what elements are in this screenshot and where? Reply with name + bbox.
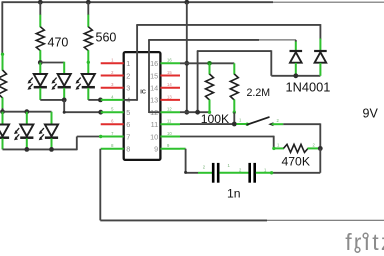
- LED D3 top row: [76, 74, 95, 90]
- wire 560 to LED3 lead: [87, 50, 90, 74]
- node junction LED1 anode: [38, 60, 43, 65]
- svg-text:10: 10: [150, 132, 158, 141]
- svg-text:11: 11: [151, 120, 159, 129]
- node junction 470 top: [38, 0, 43, 5]
- pin 6 stub: [101, 123, 124, 125]
- svg-text:5: 5: [126, 108, 130, 117]
- wire pin11 to switch: [180, 123, 237, 125]
- wire bottom LED cathode rail: [3, 148, 77, 150]
- svg-text:2.2M: 2.2M: [247, 87, 271, 99]
- node junction 560 top: [86, 0, 91, 5]
- svg-text:13: 13: [167, 94, 172, 99]
- node pin4 terminal: [98, 98, 103, 103]
- wire 560 top lead: [87, 2, 89, 27]
- svg-text:8: 8: [126, 145, 130, 154]
- resistor R2 560: [84, 27, 92, 51]
- LED D5 bottom row: [14, 125, 33, 141]
- svg-text:IC: IC: [140, 90, 147, 96]
- svg-text:6: 6: [126, 120, 130, 129]
- svg-text:1N4001: 1N4001: [286, 80, 331, 95]
- node 100K top junction: [207, 61, 212, 66]
- pin 11 stub: [160, 123, 180, 125]
- wire D8 top lead: [319, 39, 321, 52]
- svg-text:13: 13: [150, 96, 158, 105]
- svg-text:470: 470: [48, 36, 69, 50]
- resistor R4 left (value hidden): [0, 70, 7, 98]
- resistor R3 100K: [206, 74, 214, 100]
- svg-text:14: 14: [150, 84, 158, 93]
- wire right drop to cap rail: [272, 148, 321, 172]
- wire left V+ drop to R4: [1, 1, 3, 54]
- LED D2 top row: [51, 74, 70, 90]
- pin 5 stub: [101, 111, 124, 113]
- switch S1 right contact: [268, 122, 283, 126]
- pin 1 stub: [101, 62, 124, 64]
- node junction 2.2M bottom: [232, 122, 237, 127]
- switch S1 lever: [247, 117, 269, 124]
- wire pin9 down jog: [184, 149, 198, 174]
- wire cathode rail up to pin7: [77, 135, 103, 150]
- resistor R5 2.2M: [230, 74, 238, 100]
- svg-text:3: 3: [126, 84, 130, 93]
- wire LED1 anode lead: [39, 63, 41, 75]
- wire pin8 to bottom rail: [100, 149, 384, 221]
- node junction 470K right: [318, 146, 323, 151]
- wire 2.2M top lead: [233, 63, 235, 74]
- node junction LED5 cathode: [24, 147, 29, 152]
- wire 2.2M bottom lead: [233, 100, 236, 114]
- node junction LED6 cathode: [49, 147, 54, 152]
- capacitor C1 1n: [213, 163, 218, 183]
- wire switch left lead: [237, 123, 249, 126]
- node diode net junction: [195, 110, 200, 115]
- LED D1 top row: [28, 74, 47, 90]
- pin 7 stub: [101, 136, 124, 138]
- wire diode net left drop: [197, 51, 199, 112]
- svg-text:7: 7: [126, 132, 130, 141]
- wire 2.2M bottom to switch rail: [233, 112, 235, 124]
- node junction IC supply drop: [184, 0, 189, 5]
- wire LED1-LED2 cathode rail: [40, 99, 64, 101]
- wire pin10 to 470K left: [180, 136, 274, 149]
- resistor R1 470: [36, 27, 44, 51]
- LED D6 bottom row: [39, 125, 58, 141]
- wire 470K right lead: [308, 147, 321, 149]
- svg-text:16: 16: [167, 58, 172, 63]
- svg-text:10: 10: [167, 131, 172, 136]
- LED D4 bottom row: [0, 125, 9, 141]
- wire LED4 cathode lead: [2, 138, 4, 149]
- wire R4 bottom lead: [2, 98, 4, 112]
- wire LED2 cathode lead: [63, 88, 65, 100]
- svg-text:9V: 9V: [363, 107, 379, 121]
- label C 1n: [227, 186, 241, 200]
- wire pin12 to 100K bottom: [180, 111, 210, 113]
- wire LED3 cathode to pin4: [88, 99, 100, 101]
- wire cap1-cap2 link: [219, 172, 248, 174]
- diode D8 1N4001: [314, 51, 327, 63]
- svg-text:1: 1: [126, 59, 130, 68]
- fritzing watermark: [345, 229, 384, 255]
- wire 470 bottom lead: [39, 50, 41, 62]
- pin 15 stub: [160, 75, 180, 77]
- wire switch to 470K right: [283, 123, 320, 148]
- wire pin4 to diode D8 route: [124, 24, 321, 101]
- pin 12 stub: [160, 111, 180, 113]
- wire pin12 to diode D7 route: [148, 40, 296, 113]
- pin 14 stub: [160, 87, 180, 89]
- wire D8 bottom lead: [319, 63, 321, 76]
- node junction LED5 anode: [24, 109, 29, 114]
- wire LED6 anode lead: [51, 112, 53, 125]
- wire LED4 anode lead: [2, 112, 4, 125]
- pin 9 stub: [160, 148, 180, 150]
- pin 2 stub: [101, 75, 124, 77]
- wire LED1 cathode lead: [39, 88, 41, 100]
- label 1N4001: [286, 80, 331, 95]
- svg-text:11: 11: [167, 119, 172, 124]
- wire 470 top lead: [39, 2, 41, 27]
- wire pin9 lead: [180, 148, 186, 150]
- IC U1 body: [124, 52, 161, 160]
- svg-text:560: 560: [96, 31, 117, 45]
- pin 4 stub: [101, 99, 124, 101]
- svg-text:12: 12: [167, 107, 172, 112]
- wire pin16 to resistor tops: [180, 62, 234, 64]
- wire diode anode rail: [271, 75, 320, 77]
- wire V+ top rail: [2, 1, 384, 3]
- wire D7 bottom lead: [295, 63, 297, 76]
- label R2 560: [96, 31, 117, 45]
- pin 16 stub: [160, 62, 180, 64]
- node junction bottom LED rail left: [0, 109, 5, 114]
- svg-text:9: 9: [154, 145, 158, 154]
- wire cap1 left lead: [198, 172, 212, 174]
- wire LED5 anode lead: [26, 112, 28, 125]
- svg-text:470K: 470K: [282, 155, 310, 169]
- wire R4 top terminal: [1, 53, 4, 71]
- wire 100K bottom lead: [208, 100, 211, 114]
- pin 10 stub: [160, 136, 180, 138]
- wire cap2 right lead: [256, 171, 273, 174]
- labels switch pins: [239, 118, 280, 123]
- wire diode net right drop: [270, 50, 272, 76]
- pin numbers inside IC: [126, 59, 158, 153]
- node pin16 junction: [184, 61, 189, 66]
- wire IC supply drop: [186, 2, 188, 112]
- pin numbers outside stubs: [111, 58, 172, 148]
- pin 13 stub: [160, 99, 180, 101]
- wire LED2 node down jog: [63, 100, 101, 114]
- svg-text:1n: 1n: [227, 186, 241, 200]
- wire D7 top lead: [295, 42, 297, 52]
- label R1 470: [48, 36, 69, 50]
- node pin12 junction: [184, 110, 189, 115]
- pin 8 stub: [101, 148, 124, 150]
- labels cap pins: [203, 163, 267, 172]
- svg-text:15: 15: [167, 70, 172, 75]
- wire diode net top: [197, 50, 271, 52]
- wire LED6 cathode lead: [51, 138, 53, 149]
- svg-text:16: 16: [150, 59, 158, 68]
- node pin5 terminal: [98, 110, 103, 115]
- resistor R6 470K: [284, 144, 309, 152]
- capacitor C2 1n: [250, 163, 255, 183]
- diode D7 1N4001: [290, 51, 303, 63]
- label battery 9V: [363, 107, 379, 121]
- svg-text:14: 14: [167, 82, 172, 87]
- node junction LED2 cathode: [62, 98, 67, 103]
- node junction D7 anode: [293, 73, 298, 78]
- svg-text:2: 2: [126, 71, 130, 80]
- wire LED2 anode lead: [63, 62, 65, 75]
- wire LED1-LED2 anode rail: [40, 62, 64, 64]
- wire LED5 cathode lead: [26, 138, 28, 149]
- label R5 2.2M: [247, 87, 271, 99]
- label R6 470K: [277, 143, 316, 169]
- wire 470K left lead: [272, 147, 284, 150]
- label R3 100K: [201, 112, 229, 126]
- pin 3 stub: [101, 87, 124, 89]
- wire LED3 cathode lead: [87, 88, 89, 100]
- label IC: [140, 90, 147, 96]
- wire 100K top lead: [209, 63, 211, 74]
- svg-text:15: 15: [150, 71, 158, 80]
- wire bottom LED anode rail: [3, 111, 52, 113]
